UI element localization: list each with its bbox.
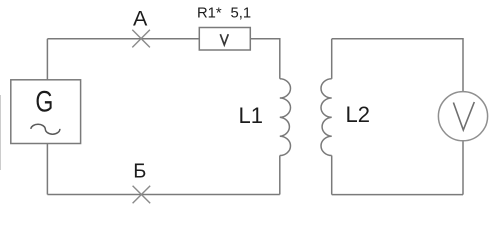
svg-text:L2: L2 [346, 102, 370, 127]
wire voltmeter bottom stub [462, 141, 464, 195]
svg-text:5,1: 5,1 [231, 5, 252, 21]
resistor R1 box [199, 28, 250, 51]
wire top rail left segment [47, 38, 199, 40]
inductor L2 (secondary winding) [321, 79, 332, 156]
scan edge artifact [0, 95, 2, 170]
resistor V mark [220, 34, 228, 45]
wire L2 bottom stub [331, 156, 333, 195]
wire resistor to L1 [250, 39, 279, 79]
svg-text:L1: L1 [239, 103, 263, 128]
wire bottom rail to generator bottom [46, 144, 48, 195]
wire top rail right loop [332, 39, 463, 92]
terminal B cross [133, 186, 151, 204]
wire L1 bottom to bottom rail [279, 156, 281, 195]
wire generator top to top rail [46, 39, 48, 80]
generator G1 box [11, 80, 81, 144]
voltmeter PV1 circle [438, 92, 487, 141]
wire L2 top stub [331, 39, 333, 79]
voltmeter V mark [453, 102, 474, 130]
generator sine symbol [31, 124, 60, 134]
bottom rail right loop [332, 194, 463, 196]
bottom rail left loop [47, 194, 279, 196]
terminal A cross [132, 30, 150, 48]
svg-text:R1*: R1* [197, 5, 222, 21]
svg-text:A: A [133, 7, 148, 31]
svg-text:G: G [35, 85, 53, 119]
inductor L1 (primary winding) [280, 79, 291, 156]
svg-text:Б: Б [133, 161, 146, 183]
